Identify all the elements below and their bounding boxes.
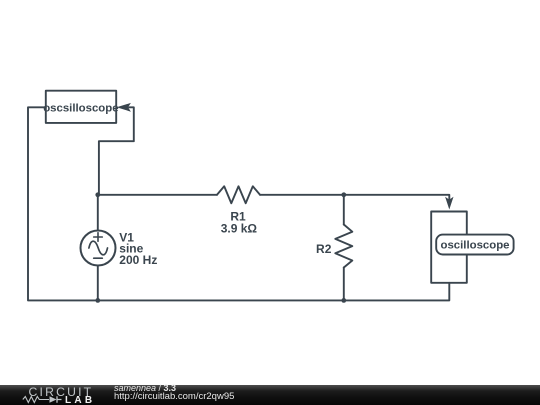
- arrow into SCOPE1 input pin: [117, 103, 131, 112]
- wire node C to SCOPE2 input: [344, 195, 450, 200]
- node B: [95, 298, 100, 303]
- oscilloscope SCOPE1 body (top-left): [46, 91, 116, 123]
- bottom rail wire node D to SCOPE2 ground pin: [344, 283, 450, 301]
- bottom rail wire node B to node D: [98, 299, 344, 301]
- plot title line: [114, 384, 176, 393]
- SCOPE2 label pill: [436, 235, 513, 255]
- logo diode: [50, 396, 57, 403]
- wire V1 top pin to node A: [97, 195, 99, 231]
- plot url line: [114, 392, 234, 401]
- wire R1 to node C: [260, 194, 344, 196]
- svg-text:oscsilloscope: oscsilloscope: [43, 103, 118, 115]
- arrow into SCOPE2 input pin: [445, 197, 453, 210]
- V1 plus sign: [94, 233, 103, 242]
- V1 sine symbol: [89, 241, 108, 255]
- svg-text:200 Hz: 200 Hz: [119, 253, 157, 267]
- wire V1 bottom pin to node B: [97, 266, 99, 301]
- wire SCOPE1 input to node A: [99, 107, 134, 195]
- wire SCOPE1 ground pin to bottom rail: [28, 107, 98, 300]
- logo resistor zigzag: [23, 397, 49, 403]
- node D: [341, 298, 346, 303]
- wire R2 to node D: [343, 268, 345, 301]
- CircuitLab logo wordmark: [0, 385, 110, 405]
- node A: [95, 192, 100, 197]
- resistor R2: [335, 225, 352, 268]
- footer bar: [0, 385, 540, 405]
- resistor R1: [217, 186, 260, 203]
- voltage source V1 circle: [81, 231, 116, 266]
- svg-text:oscilloscope: oscilloscope: [440, 240, 509, 252]
- wire node C to R2: [343, 195, 345, 225]
- wire node A to R1: [98, 194, 217, 196]
- svg-text:3.9 kΩ: 3.9 kΩ: [221, 222, 258, 236]
- oscilloscope SCOPE2 body (right): [431, 212, 467, 283]
- svg-text:R2: R2: [316, 242, 332, 256]
- node C: [341, 192, 346, 197]
- svg-text:LAB: LAB: [65, 395, 95, 405]
- V1 minus sign: [94, 257, 103, 259]
